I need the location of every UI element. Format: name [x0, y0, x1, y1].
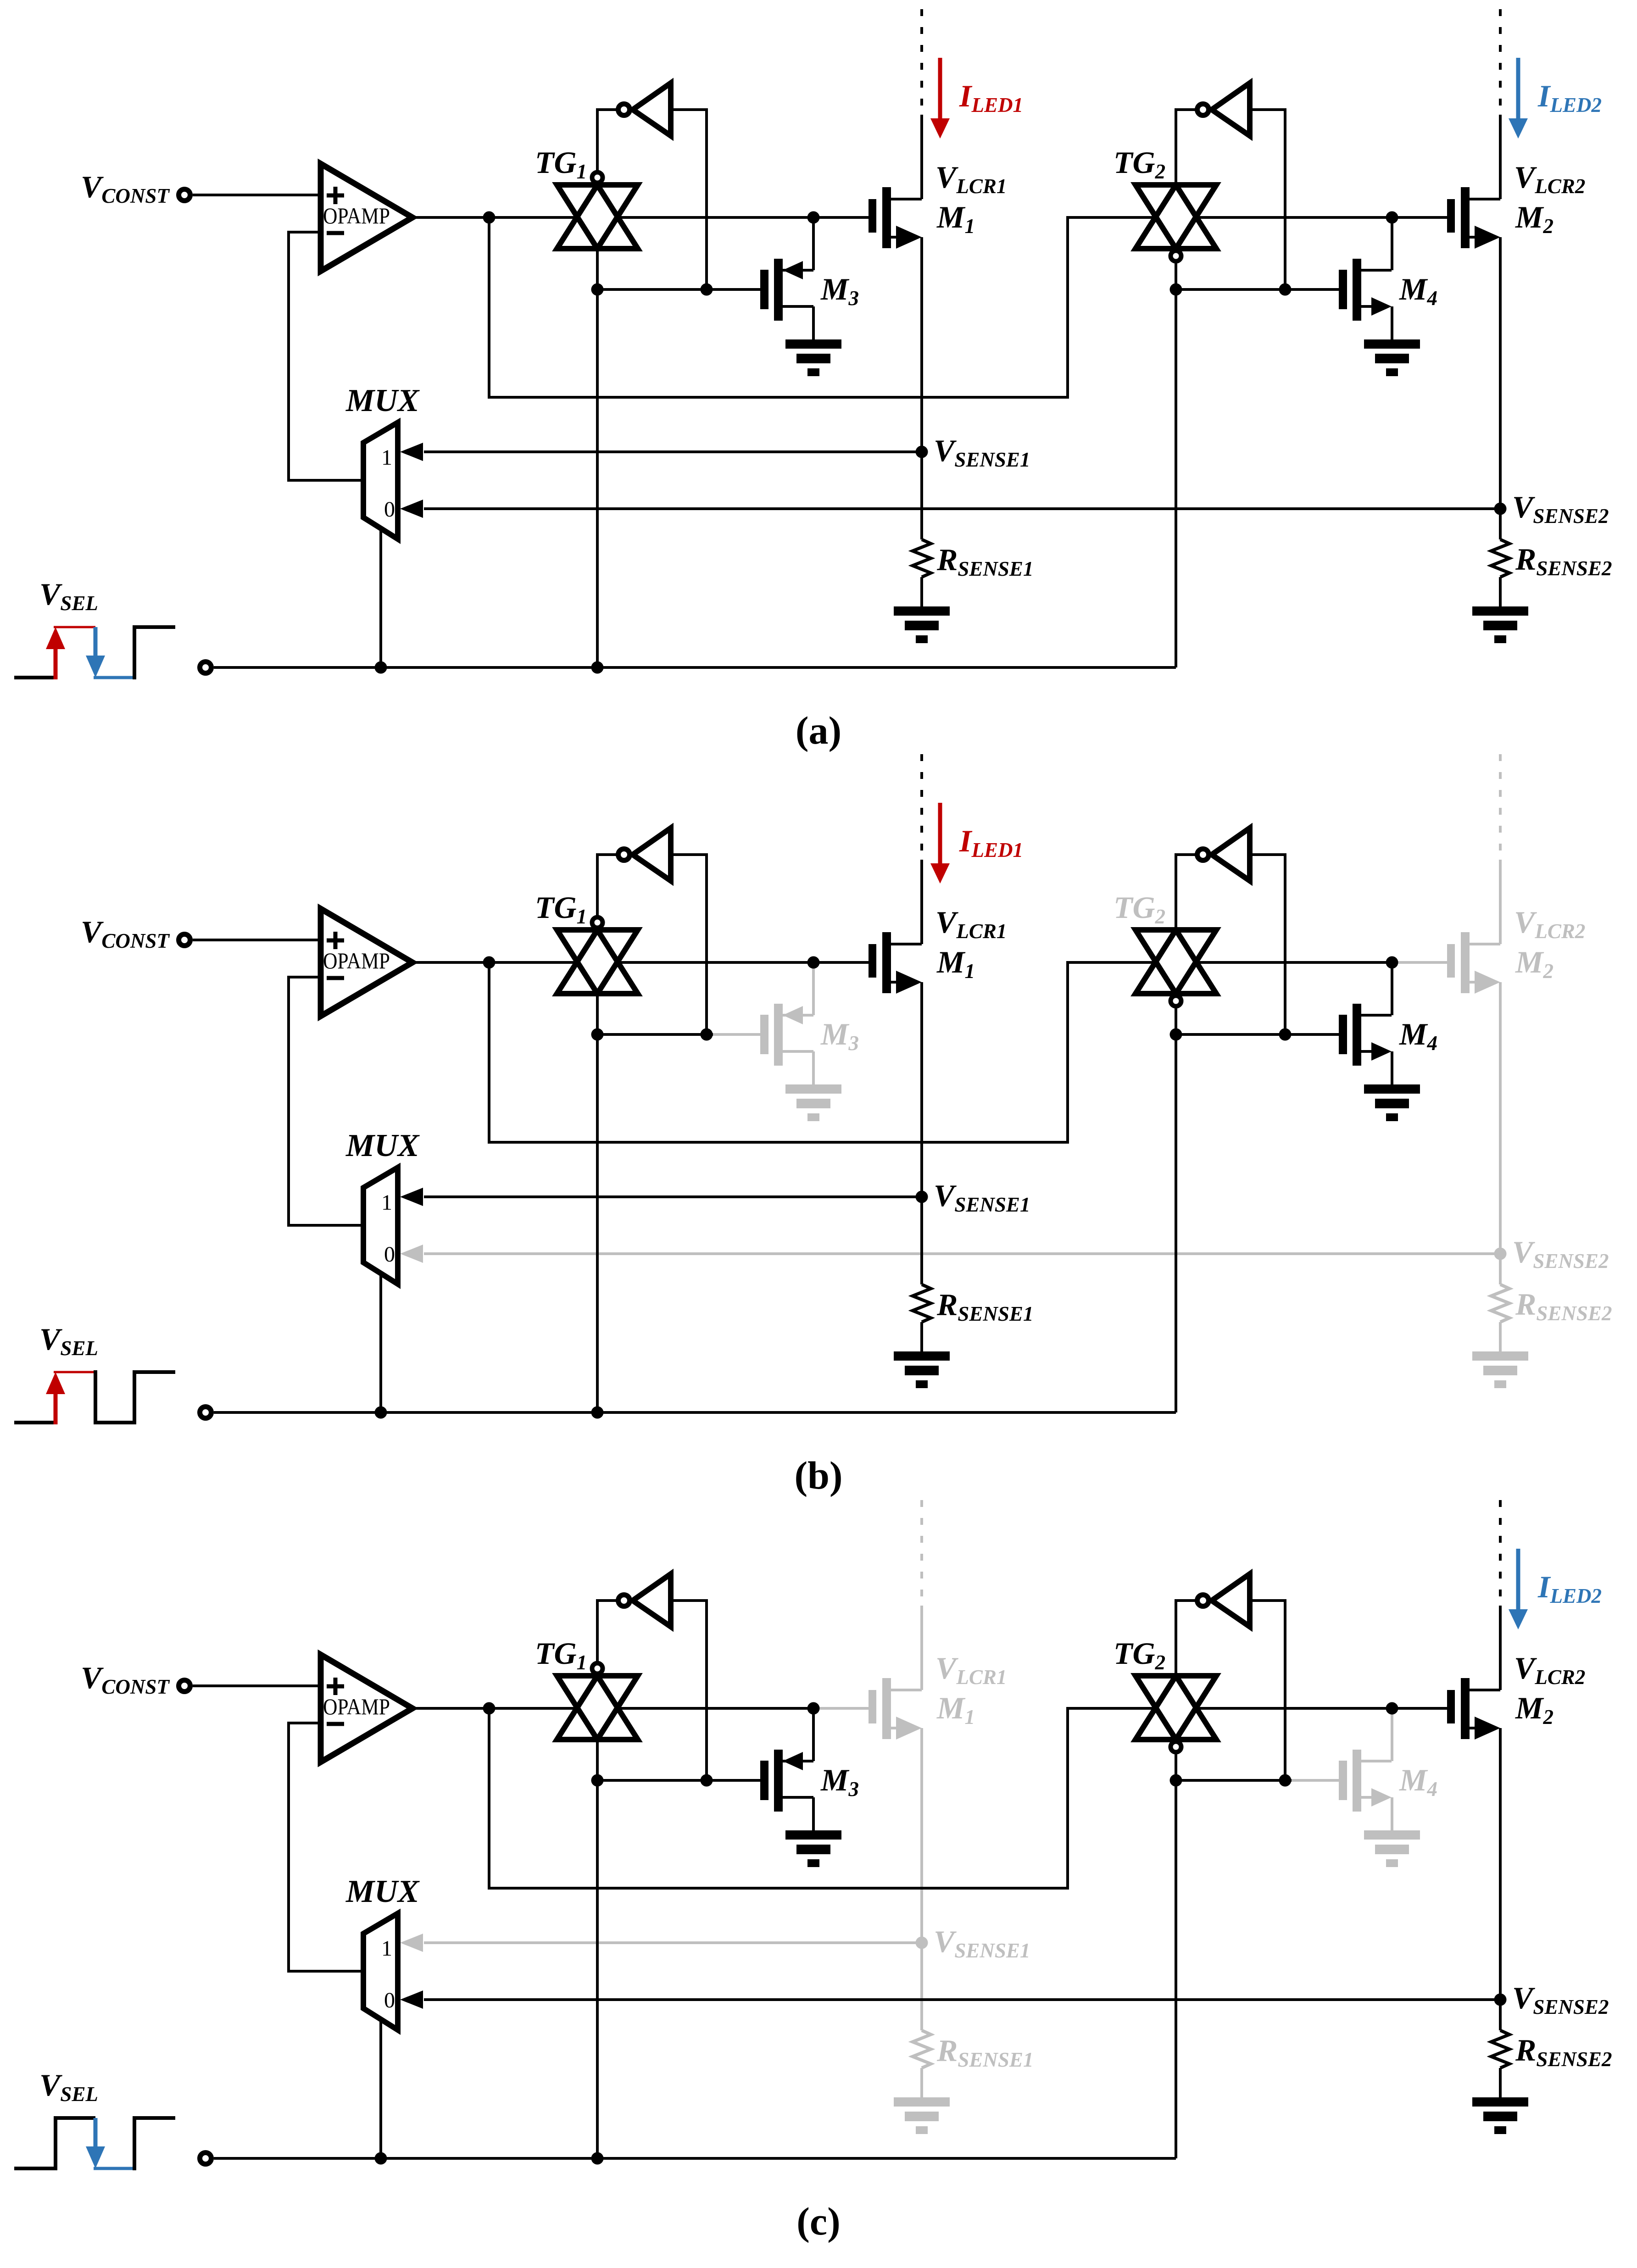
svg-text:MUX: MUX	[345, 1128, 420, 1163]
svg-text:1: 1	[381, 1190, 392, 1215]
svg-text:0: 0	[384, 1242, 395, 1267]
svg-text:0: 0	[384, 1988, 395, 2012]
svg-text:(a): (a)	[796, 708, 841, 752]
svg-text:1: 1	[381, 445, 392, 470]
svg-text:OPAMP: OPAMP	[323, 948, 390, 973]
svg-text:(b): (b)	[794, 1453, 842, 1497]
svg-text:OPAMP: OPAMP	[323, 1694, 390, 1719]
svg-text:(c): (c)	[796, 2199, 840, 2243]
svg-text:1: 1	[381, 1936, 392, 1961]
svg-text:0: 0	[384, 497, 395, 522]
svg-text:MUX: MUX	[345, 1874, 420, 1909]
svg-text:MUX: MUX	[345, 383, 420, 418]
svg-text:OPAMP: OPAMP	[323, 203, 390, 228]
